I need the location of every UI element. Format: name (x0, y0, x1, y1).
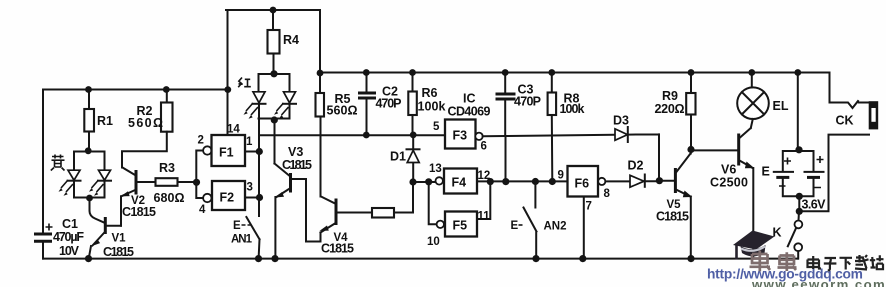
svg-text:D2: D2 (628, 159, 644, 173)
svg-text:11: 11 (478, 211, 491, 223)
svg-text:CK: CK (836, 114, 854, 128)
svg-text:2: 2 (198, 135, 204, 147)
svg-text:F4: F4 (452, 176, 467, 190)
svg-text:E: E (511, 220, 519, 232)
svg-text:100k: 100k (560, 102, 585, 116)
svg-text:R4: R4 (283, 33, 299, 47)
svg-text:F2: F2 (220, 191, 235, 205)
svg-text:12: 12 (478, 170, 491, 182)
svg-text:K: K (773, 226, 782, 240)
svg-text:C2500: C2500 (710, 176, 748, 190)
svg-text:V6: V6 (721, 163, 736, 177)
svg-text:470P: 470P (376, 97, 402, 111)
svg-text:C1: C1 (62, 217, 78, 231)
svg-text:470P: 470P (514, 95, 541, 109)
svg-text:C1815: C1815 (321, 242, 354, 256)
svg-text:4: 4 (199, 204, 206, 216)
svg-text:F1: F1 (219, 146, 234, 160)
svg-text:C1815: C1815 (103, 245, 134, 259)
svg-text:EL: EL (773, 99, 789, 113)
svg-text:7: 7 (586, 201, 592, 213)
svg-text:680Ω: 680Ω (154, 191, 185, 205)
svg-text:100k: 100k (418, 100, 446, 114)
svg-text:9: 9 (558, 170, 564, 182)
svg-text:F5: F5 (453, 219, 468, 233)
svg-text:14: 14 (227, 124, 240, 136)
svg-text:8: 8 (604, 188, 611, 200)
svg-text:3.6V: 3.6V (802, 198, 827, 212)
svg-text:F6: F6 (575, 177, 590, 191)
svg-text:1: 1 (246, 136, 253, 148)
svg-text:560Ω: 560Ω (327, 104, 358, 118)
svg-text:D3: D3 (613, 114, 629, 128)
svg-text:R3: R3 (159, 161, 175, 175)
svg-text:560Ω: 560Ω (128, 116, 163, 130)
svg-text:10V: 10V (59, 244, 80, 258)
svg-text:CD4069: CD4069 (448, 105, 491, 119)
svg-text:E: E (762, 165, 770, 179)
svg-text:C1815: C1815 (282, 158, 312, 172)
svg-text:3: 3 (247, 182, 253, 194)
svg-text:13: 13 (429, 163, 442, 175)
svg-text:10: 10 (427, 236, 440, 248)
svg-text:R1: R1 (97, 114, 113, 128)
svg-text:220Ω: 220Ω (655, 102, 685, 116)
svg-text:C1815: C1815 (656, 210, 689, 224)
svg-text:6: 6 (481, 141, 487, 153)
svg-text:R9: R9 (662, 89, 678, 103)
svg-text:E: E (233, 220, 241, 232)
svg-text:IC: IC (463, 92, 476, 106)
svg-text:C1815: C1815 (122, 205, 156, 219)
svg-text:www.eeworm.com: www.eeworm.com (751, 277, 886, 287)
svg-text:5: 5 (433, 121, 440, 133)
svg-text:470µF: 470µF (53, 230, 84, 244)
svg-text:F3: F3 (453, 129, 468, 143)
svg-text:AN1: AN1 (231, 234, 253, 246)
svg-text:D1: D1 (390, 150, 406, 164)
svg-text:R6: R6 (422, 86, 438, 100)
svg-text:V3: V3 (288, 145, 303, 159)
svg-text:V1: V1 (112, 233, 127, 245)
svg-text:AN2: AN2 (544, 221, 567, 233)
